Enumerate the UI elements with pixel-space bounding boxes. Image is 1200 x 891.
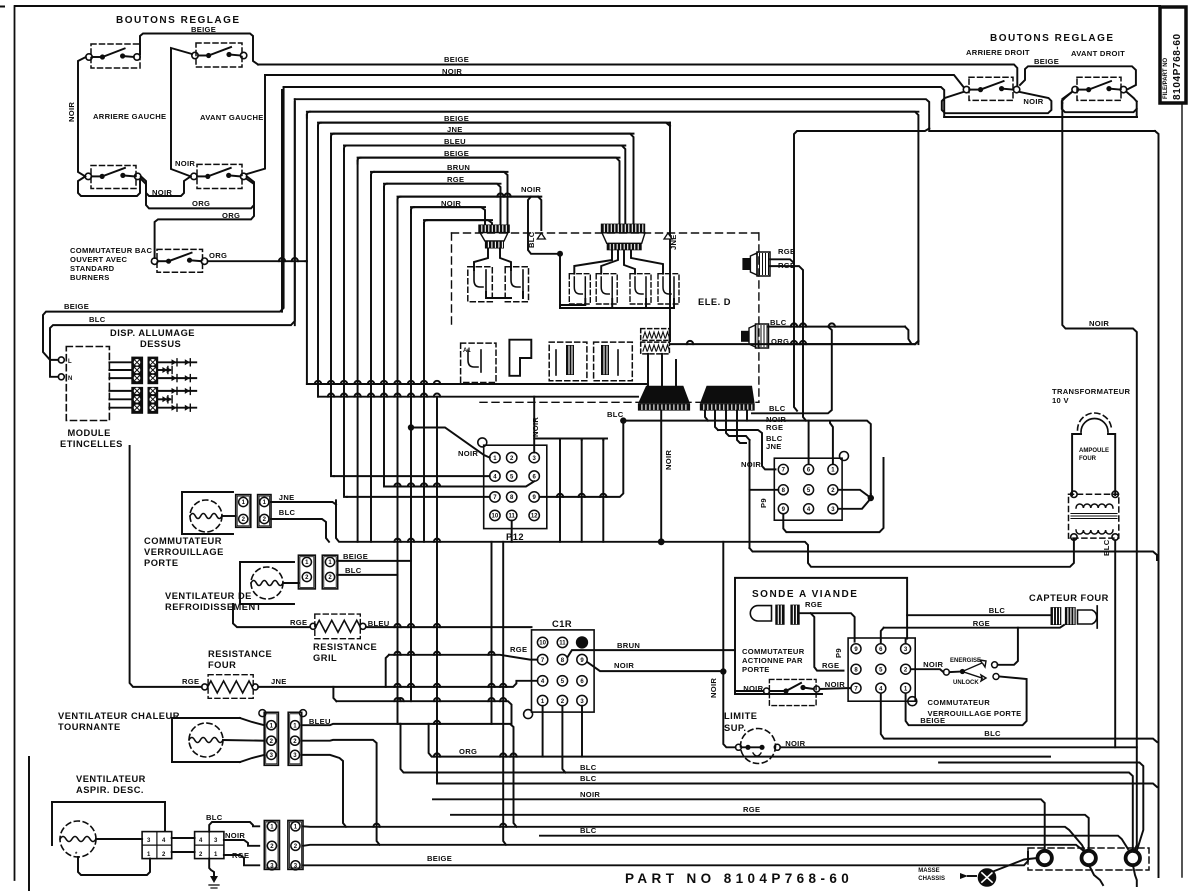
svg-text:A1: A1 <box>463 348 471 354</box>
wire beige top-left arc <box>140 34 258 65</box>
wire org from bac switch to bundle <box>208 258 307 261</box>
connector P12 <box>478 438 547 542</box>
wire gril left <box>233 604 310 627</box>
dashed component box C <box>549 342 587 381</box>
text commutateur actionne par porte <box>742 647 805 674</box>
svg-text:NOIR: NOIR <box>521 185 541 194</box>
wire gril right bleu <box>366 624 532 627</box>
svg-text:BEIGE: BEIGE <box>444 55 469 64</box>
wire bundle nested corners <box>307 112 919 226</box>
svg-text:AVANT GAUCHE: AVANT GAUCHE <box>200 113 264 122</box>
svg-text:10: 10 <box>492 514 499 520</box>
svg-text:COMMUTATEUR: COMMUTATEUR <box>742 647 805 656</box>
wire blc to capteur <box>907 606 1050 615</box>
wire left lower vertical x29 <box>28 757 30 891</box>
wires plug RGE down <box>770 259 806 420</box>
wire transformer right pin down <box>1114 540 1116 747</box>
svg-text:RGE: RGE <box>822 661 839 670</box>
svg-text:BURNERS: BURNERS <box>70 273 110 282</box>
wire org plug right <box>769 341 916 344</box>
wires door lock upper to bus <box>271 502 336 542</box>
connector block A aspir <box>142 832 172 859</box>
svg-text:RGE: RGE <box>447 175 464 184</box>
text limite sup <box>724 711 757 733</box>
wire bus ORG y757 <box>429 724 1050 757</box>
svg-text:ORG: ORG <box>459 747 477 756</box>
svg-text:12: 12 <box>579 641 586 647</box>
switch arriere gauche top <box>86 44 140 68</box>
text ventilateur chaleur tournante <box>58 711 180 732</box>
svg-text:MODULE: MODULE <box>68 428 111 438</box>
relay contacts under strip2 <box>560 250 679 308</box>
wire mid verticals down x491 x503 <box>492 521 512 845</box>
terminal L2 <box>1126 851 1140 865</box>
svg-text:STANDARD: STANDARD <box>70 264 115 273</box>
dashed component box A <box>461 343 496 382</box>
svg-text:8104P768-60: 8104P768-60 <box>1172 33 1183 100</box>
fan motor chaleur <box>172 718 264 762</box>
text module etincelles <box>60 428 123 449</box>
svg-text:NOIR: NOIR <box>825 680 845 689</box>
svg-text:ARRIERE DROIT: ARRIERE DROIT <box>966 48 1030 57</box>
terminal N <box>1082 851 1096 865</box>
labels on top bus wires <box>441 55 541 208</box>
wire right trunk x919 <box>917 341 919 344</box>
svg-text:PART NO 8104P768-60: PART NO 8104P768-60 <box>625 871 853 886</box>
wire noir left vertical <box>78 57 86 176</box>
connector C1R <box>524 619 595 719</box>
wire four left from module vertical <box>130 446 202 687</box>
svg-text:VENTILATEUR CHALEUR: VENTILATEUR CHALEUR <box>58 711 180 721</box>
svg-text:RGE: RGE <box>510 645 527 654</box>
svg-text:P9: P9 <box>834 648 843 658</box>
wire rge into C1R pin7 <box>389 645 537 660</box>
svg-text:OUVERT AVEC: OUVERT AVEC <box>70 255 128 264</box>
wire top bus y87 to right pocket <box>284 87 945 117</box>
wire y220 to strip1 <box>424 220 492 225</box>
svg-text:CHASSIS: CHASSIS <box>918 876 945 882</box>
wire blockA to blockB <box>172 838 195 852</box>
svg-text:FOUR: FOUR <box>208 660 236 670</box>
svg-text:ORG: ORG <box>209 251 227 260</box>
svg-text:BLC: BLC <box>206 813 223 822</box>
wire y207 to strip1 <box>411 207 485 225</box>
svg-text:N: N <box>68 376 72 382</box>
wire noir into P12 pin1 <box>408 424 490 458</box>
wire rge to strip1 <box>384 184 501 225</box>
masse chassis symbol <box>918 858 1037 886</box>
relay strip EL2 hatched flare <box>700 386 755 411</box>
component box B flag <box>509 340 531 376</box>
wire noir from C1R pin9 <box>587 661 719 671</box>
wire beige left bus <box>43 87 284 318</box>
terminal L1 <box>1038 851 1052 865</box>
wire top bus y111 to right down <box>307 112 919 344</box>
wire P9 pin2 to lock switch <box>911 660 943 672</box>
switch arriere droit <box>963 77 1020 100</box>
switch commutateur bac <box>151 249 207 272</box>
svg-text:BLC: BLC <box>580 763 597 772</box>
label blc at strip EL2 <box>752 327 832 414</box>
switch avant gauche top <box>192 43 247 67</box>
sonde probe <box>750 605 799 625</box>
svg-text:NOIR: NOIR <box>580 790 600 799</box>
wire blc from blockB <box>206 813 259 832</box>
wire top bus beige y64 <box>258 65 1017 87</box>
sonde a viande enclosure <box>735 578 907 694</box>
text disp allumage dessus <box>110 328 195 349</box>
svg-text:RGE: RGE <box>805 600 822 609</box>
svg-text:AMPOULE: AMPOULE <box>1079 448 1109 454</box>
wire P9mid pin1 col up <box>830 421 833 464</box>
terminal box dashed <box>1028 848 1149 870</box>
svg-text:NOIR: NOIR <box>785 739 805 748</box>
component box E coil <box>641 329 670 354</box>
junction dot center <box>527 197 563 257</box>
svg-text:TOURNANTE: TOURNANTE <box>58 722 121 732</box>
wire bus y827 <box>303 824 1084 849</box>
wire noir bottom link <box>78 176 140 196</box>
svg-text:ORG: ORG <box>192 199 210 208</box>
svg-text:COMMUTATEUR BAC: COMMUTATEUR BAC <box>70 246 152 255</box>
wire bus BLC y836 <box>540 826 1128 849</box>
wire right switch vertical x1062 <box>1062 103 1137 852</box>
svg-text:BLC: BLC <box>580 774 597 783</box>
svg-text:DESSUS: DESSUS <box>140 339 181 349</box>
fan motor aspir <box>52 802 165 875</box>
connector P9 mid <box>759 452 849 521</box>
switch avant gauche bottom <box>191 164 247 188</box>
relay contacts under strip1 <box>468 249 529 302</box>
ELE D dashed enclosure <box>452 233 759 402</box>
wire strip2 feeds from bus <box>331 134 634 225</box>
wire noir from blockB <box>224 831 259 846</box>
svg-text:BLC: BLC <box>345 566 362 575</box>
svg-text:RGE: RGE <box>778 247 795 256</box>
svg-text:RESISTANCE: RESISTANCE <box>208 649 272 659</box>
wire long y542 to transformer <box>336 500 1074 567</box>
ampoule four lamp <box>1072 413 1115 495</box>
svg-text:LIMITE: LIMITE <box>724 711 757 721</box>
relay strip EL1 hatched flare <box>638 386 690 411</box>
fan motor refroidissement <box>240 562 298 604</box>
connector strips door lock upper <box>236 493 296 527</box>
wires box C D drops <box>534 439 607 542</box>
svg-text:NOIR: NOIR <box>709 678 718 698</box>
svg-text:12: 12 <box>531 514 538 520</box>
wire pocket bottoms y117 <box>944 116 1137 118</box>
wire P9mid pin3 to dot <box>839 498 871 509</box>
svg-text:11: 11 <box>509 514 516 520</box>
pocket under avant droit <box>1062 92 1137 112</box>
wire L to beige <box>43 318 58 360</box>
svg-text:BOUTONS REGLAGE: BOUTONS REGLAGE <box>990 33 1115 44</box>
svg-text:NOIR: NOIR <box>1089 319 1109 328</box>
svg-text:BEIGE: BEIGE <box>427 854 452 863</box>
svg-text:VERROUILLAGE: VERROUILLAGE <box>144 547 224 557</box>
wire P9 pin1 down beige <box>906 677 1027 726</box>
svg-text:C1R: C1R <box>552 619 572 629</box>
wire y344 from right <box>670 341 918 344</box>
capteur four sensor <box>1051 606 1098 628</box>
wire rge from blockB <box>224 851 259 865</box>
wire P12 pin3 top <box>533 397 535 453</box>
svg-text:VENTILATEUR DE: VENTILATEUR DE <box>165 591 252 601</box>
svg-text:NOIR: NOIR <box>175 159 195 168</box>
svg-text:NOIR: NOIR <box>664 450 673 470</box>
svg-text:FILE/PART NO: FILE/PART NO <box>1163 57 1169 99</box>
svg-text:JNE: JNE <box>279 493 295 502</box>
wires under terminals <box>1089 865 1137 887</box>
plug RGE top <box>742 247 795 276</box>
text transformateur 10V <box>1052 387 1131 405</box>
wire P9 pin3 up <box>905 639 907 643</box>
svg-text:RGE: RGE <box>973 619 990 628</box>
svg-text:NOIR: NOIR <box>531 417 540 437</box>
wire blc left bus <box>50 99 295 330</box>
labels stack right of strips <box>766 415 786 451</box>
svg-text:TRANSFORMATEUR: TRANSFORMATEUR <box>1052 387 1131 396</box>
wire P9 pin6 up rge <box>881 628 884 643</box>
wire to right bus noir <box>247 75 265 174</box>
svg-text:PORTE: PORTE <box>742 665 770 674</box>
svg-text:RGE: RGE <box>743 805 760 814</box>
wire top bus noir y75 <box>265 75 964 87</box>
svg-text:NOIR: NOIR <box>67 102 76 122</box>
wire bus y845 <box>303 845 1085 852</box>
svg-text:10: 10 <box>539 641 546 647</box>
wire bus BLC y783 <box>440 774 1157 787</box>
svg-text:RGE: RGE <box>766 423 783 432</box>
wires box E to strip EL1 <box>648 354 676 386</box>
transformateur coils <box>1069 491 1119 556</box>
plug BLC ORG <box>741 318 789 348</box>
wire rge y430 to P9mid pin7 <box>718 430 776 469</box>
connector strips chaleur <box>259 710 331 766</box>
wire noir limite sup to right <box>780 739 1137 748</box>
dashed component box D <box>594 342 633 381</box>
text commutateur bac ouvert avec standard burners <box>70 246 152 282</box>
svg-text:AVANT DROIT: AVANT DROIT <box>1071 49 1125 58</box>
wire y344 hump set <box>687 341 693 344</box>
wire mid bus y397 <box>318 394 638 397</box>
svg-text:RGE: RGE <box>290 618 307 627</box>
svg-text:ACTIONNE PAR: ACTIONNE PAR <box>742 656 803 665</box>
svg-text:NOIR: NOIR <box>741 460 761 469</box>
wire P9 pin4 down blc <box>881 694 1157 742</box>
connector strips refroidissement <box>298 552 368 589</box>
svg-text:MASSE: MASSE <box>918 868 939 874</box>
svg-text:COMMUTATEUR: COMMUTATEUR <box>928 698 991 707</box>
svg-text:ORG: ORG <box>222 211 240 220</box>
wire y131 segment <box>794 129 929 264</box>
svg-text:BEIGE: BEIGE <box>64 302 89 311</box>
wire y762 right <box>939 763 1143 852</box>
switch actionne par porte <box>735 679 820 705</box>
svg-text:JNE: JNE <box>766 442 782 451</box>
wires strip EL2 down fan <box>705 411 750 443</box>
connector strip1 hatched <box>478 225 510 249</box>
text ventilateur refroidissement <box>165 591 262 612</box>
label jne vertical <box>318 123 678 341</box>
wire bundle verticals <box>282 90 440 784</box>
svg-text:P12: P12 <box>506 532 524 542</box>
wire P12 pin9 right <box>539 410 626 497</box>
svg-text:RESISTANCE: RESISTANCE <box>313 642 377 652</box>
svg-text:10 V: 10 V <box>1052 396 1069 405</box>
wire mid bus y384 <box>307 381 646 384</box>
wire switch to P9 pin7 <box>820 680 850 689</box>
wire lock upper right to rge <box>998 628 1018 665</box>
wire P9mid pin9 down loop <box>783 458 883 532</box>
wire top bus y99 to right <box>295 99 929 128</box>
svg-text:VENTILATEUR: VENTILATEUR <box>76 774 146 784</box>
connector block B aspir <box>195 832 224 859</box>
svg-text:BLC: BLC <box>984 729 1001 738</box>
text ventilateur aspir desc <box>76 774 146 795</box>
svg-text:BLC: BLC <box>607 410 624 419</box>
svg-text:GRIL: GRIL <box>313 653 337 663</box>
svg-text:ENERGISE: ENERGISE <box>950 658 981 664</box>
svg-text:BLC: BLC <box>89 315 106 324</box>
resistance four <box>182 649 287 698</box>
wire bus RGE y815 <box>451 805 1089 850</box>
svg-text:BEIGE: BEIGE <box>343 552 368 561</box>
pocket under arriere droit <box>942 92 1052 113</box>
wires refroidissement to verticals <box>338 561 411 575</box>
svg-text:ELE. D: ELE. D <box>698 297 731 307</box>
door lock switch energise unlock <box>943 658 999 686</box>
svg-text:VERROUILLAGE PORTE: VERROUILLAGE PORTE <box>928 709 1022 718</box>
wire noir to box4 <box>141 176 191 196</box>
ground arrow under blockB <box>209 859 219 888</box>
svg-text:NOIR: NOIR <box>923 660 943 669</box>
triangle markers on dashed line <box>537 233 672 239</box>
wire rge to capteur <box>884 619 1064 628</box>
svg-text:BLC: BLC <box>279 508 296 517</box>
wire sonde rge to P9 pin9 <box>800 600 855 642</box>
svg-text:BLC: BLC <box>580 826 597 835</box>
wire into P12 pin7 <box>347 496 490 498</box>
svg-text:CAPTEUR FOUR: CAPTEUR FOUR <box>1029 593 1109 603</box>
wire sonde branch to pin8 <box>811 613 844 670</box>
svg-text:P9: P9 <box>759 498 768 508</box>
text commutateur verrouillage porte right <box>928 698 1022 718</box>
wire N to blc <box>50 330 58 377</box>
module etincelles box <box>58 347 109 421</box>
connector strip2 hatched <box>601 224 645 251</box>
wire y117 riser <box>1136 109 1138 117</box>
wire y701 from x411 <box>336 698 511 724</box>
part number box top right <box>1160 7 1186 103</box>
resistance gril <box>290 614 390 663</box>
svg-text:JNE: JNE <box>271 677 287 686</box>
svg-text:L: L <box>68 359 72 365</box>
wire avant droit left down <box>1062 92 1072 103</box>
svg-text:SUP.: SUP. <box>724 723 747 733</box>
svg-text:BLC: BLC <box>527 231 536 248</box>
wires strip EL1 down <box>658 411 665 546</box>
wire brun to strip1 left <box>371 172 508 225</box>
thermostat limite sup <box>736 729 781 764</box>
wire bus BEIGE y865 <box>303 852 1028 865</box>
wire right trunk x929 y129 <box>929 129 1158 878</box>
spark connectors top group <box>109 357 196 385</box>
svg-text:RGE: RGE <box>182 677 199 686</box>
svg-text:UNLOCK: UNLOCK <box>953 680 979 686</box>
svg-text:NOIR: NOIR <box>458 449 478 458</box>
svg-text:NOIR: NOIR <box>1023 97 1043 106</box>
svg-text:11: 11 <box>559 641 566 647</box>
wire org to bac switch <box>155 179 254 258</box>
svg-text:PORTE: PORTE <box>144 558 179 568</box>
wire beige between right switches <box>1020 66 1136 89</box>
wire bus BLC y772 <box>401 724 1133 849</box>
svg-text:BLC: BLC <box>989 606 1006 615</box>
switch avant droit <box>1072 77 1127 100</box>
connector P9 sonde <box>834 638 917 706</box>
svg-text:BRUN: BRUN <box>447 163 470 172</box>
wires C1R pins 123 down <box>543 706 582 773</box>
wire long y552 <box>750 548 1158 560</box>
svg-text:BRUN: BRUN <box>617 641 640 650</box>
wire P9mid pin2 to dot <box>839 490 871 498</box>
connector strips aspir right <box>264 821 303 870</box>
svg-text:SONDE A VIANDE: SONDE A VIANDE <box>752 589 858 600</box>
label noir vertical strip <box>664 450 673 470</box>
wires chaleur to right <box>302 721 517 845</box>
svg-text:DISP. ALLUMAGE: DISP. ALLUMAGE <box>110 328 195 338</box>
wire y193 bus to strip1 <box>398 193 542 230</box>
wire avant gauche left vertical <box>171 48 192 176</box>
svg-text:BLC: BLC <box>769 404 786 413</box>
wire P9mid pin8 down <box>750 440 779 548</box>
wire four right jne long <box>258 655 537 701</box>
svg-text:NOIR: NOIR <box>614 661 634 670</box>
svg-text:COMMUTATEUR: COMMUTATEUR <box>144 536 222 546</box>
spark connectors bottom group <box>109 387 196 414</box>
wire org lower <box>141 176 254 208</box>
svg-text:BEIGE: BEIGE <box>1034 57 1059 66</box>
text commutateur verrouillage porte upper <box>144 536 224 568</box>
wire noir y420 to dot right <box>623 421 874 502</box>
wire brun from C1R pin8 <box>568 641 735 657</box>
svg-text:ARRIERE GAUCHE: ARRIERE GAUCHE <box>93 112 166 121</box>
svg-text:ASPIR. DESC.: ASPIR. DESC. <box>76 785 144 795</box>
wire into P12 pin4 <box>334 475 490 477</box>
svg-text:ETINCELLES: ETINCELLES <box>60 439 123 449</box>
wire into P12 pin6 <box>387 481 534 486</box>
wire bus NOIR y799 <box>433 790 1045 850</box>
switch arriere gauche bottom <box>85 166 141 189</box>
wire blc plug right <box>769 323 912 343</box>
wire noir vertical x723 <box>709 542 736 748</box>
svg-text:BLC: BLC <box>1102 539 1111 556</box>
door lock switch component upper <box>182 492 236 534</box>
svg-text:BOUTONS REGLAGE: BOUTONS REGLAGE <box>116 15 241 26</box>
svg-text:FOUR: FOUR <box>1079 456 1097 462</box>
wire P9mid pin6 up <box>808 421 810 464</box>
svg-text:NOIR: NOIR <box>225 831 245 840</box>
